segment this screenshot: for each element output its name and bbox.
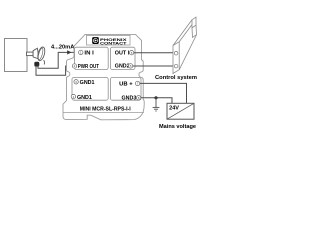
svg-text:4...20mA: 4...20mA (51, 45, 74, 51)
card terminal circle upper (174, 51, 178, 55)
terminal 2 circle (72, 64, 76, 68)
wire B: probe to PWR OUT (36, 66, 72, 75)
terminal 1 circle (79, 50, 83, 54)
wire UB+ to 24V supply (140, 83, 187, 103)
svg-text:UB +: UB + (119, 81, 133, 87)
terminal 8 circle (136, 96, 140, 100)
svg-text:CONTACT: CONTACT (100, 41, 127, 45)
probe terminal joint (34, 62, 39, 67)
ground symbol (153, 98, 160, 111)
svg-text:GND3: GND3 (122, 95, 137, 101)
svg-text:PWR OUT: PWR OUT (78, 64, 100, 70)
probe head disc (36, 46, 46, 61)
logo plate (87, 35, 131, 45)
svg-text:Mains voltage: Mains voltage (159, 124, 196, 130)
card terminal circle lower (174, 64, 178, 68)
svg-text:IN I: IN I (84, 50, 94, 56)
svg-text:OUT I: OUT I (115, 51, 130, 57)
card face top edge (173, 20, 192, 46)
card top connector lower (192, 25, 197, 37)
case separator line above foot (63, 111, 144, 113)
terminal panel P4 (UB+ / GND3) (110, 77, 141, 100)
terminal panel P2 (OUT I / GND2) (110, 47, 135, 69)
card face inner edge (179, 24, 192, 42)
svg-text:MINI MCR-SL-RPS-I-I: MINI MCR-SL-RPS-I-I (80, 107, 131, 113)
terminal 5 circle (128, 64, 132, 68)
temperature probe T1 (27, 46, 47, 64)
terminal 6 circle (129, 51, 133, 55)
terminal 4 circle (71, 94, 75, 98)
terminal 3 circle (74, 80, 78, 84)
module case MINI MCR-SL-RPS-I-I (63, 34, 144, 119)
wire OUT I to control system (134, 52, 174, 54)
card top connector upper (192, 17, 196, 28)
terminal panel P1 (IN I / PWR OUT) (75, 47, 109, 69)
control system card (173, 17, 197, 73)
tank box (sensor vessel) (5, 39, 28, 72)
wire GND2 to control system (133, 65, 174, 67)
svg-text:24V: 24V (169, 106, 179, 112)
wire A: probe to IN I with 4...20mA arrow (38, 52, 79, 68)
svg-text:Control system: Control system (155, 75, 197, 81)
junction on GND3 wire (154, 96, 157, 99)
24V power supply box (167, 103, 194, 119)
card front strip (173, 42, 179, 74)
supply diagonal (167, 103, 194, 119)
probe shaft (27, 52, 34, 56)
wire GND3 to 24V supply (141, 98, 172, 104)
terminal panel P3 (GND1 / GND1) (72, 77, 108, 100)
arrowhead 4...20mA (67, 50, 71, 54)
probe tail clip (43, 60, 46, 64)
terminal 7 circle (135, 81, 139, 85)
card bottom edge (179, 35, 196, 70)
svg-text:GND2: GND2 (115, 64, 130, 70)
probe head body (33, 48, 39, 59)
phoenix contact logo (92, 37, 127, 45)
svg-text:GND1: GND1 (80, 80, 95, 86)
svg-text:GND1: GND1 (77, 95, 92, 101)
